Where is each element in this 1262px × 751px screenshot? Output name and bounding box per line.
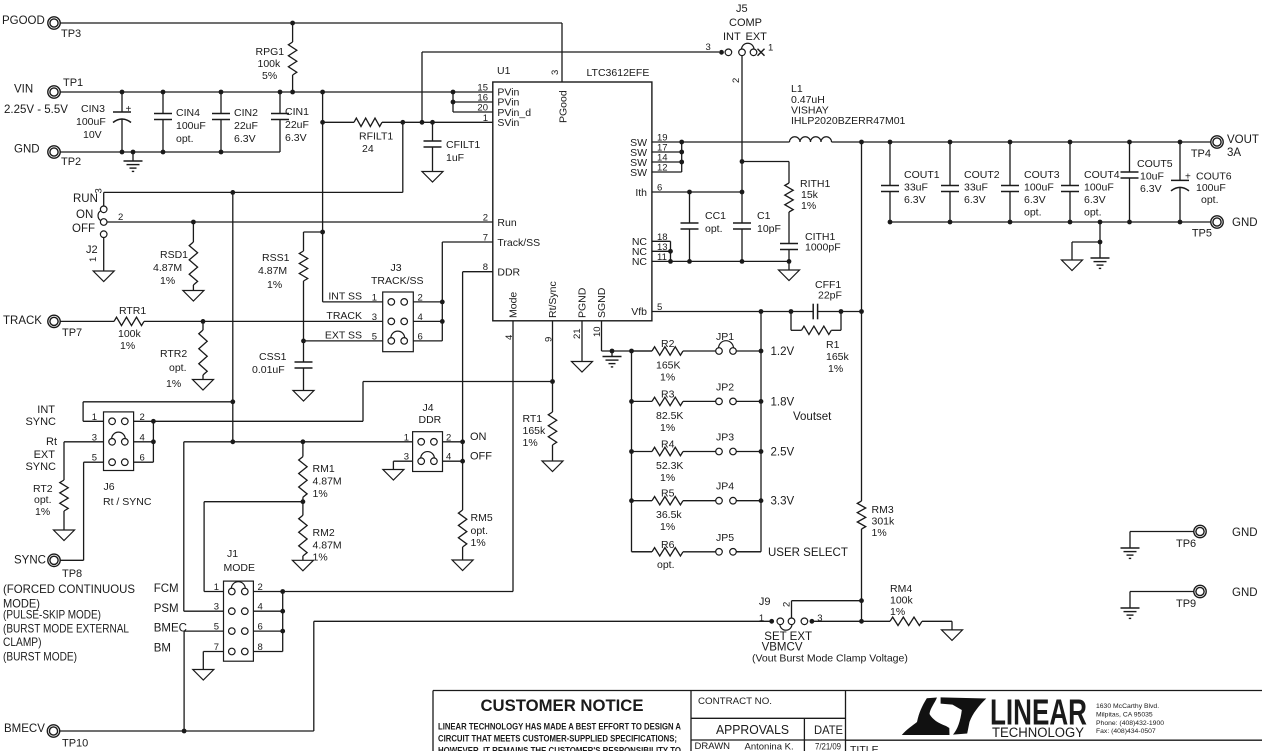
capacitor C1 10pF [733,210,781,261]
wire J1 pins 2/4/6/8 tie [253,592,282,652]
svg-text:TP1: TP1 [63,77,83,89]
wire VOUT to Vfb [861,142,863,501]
svg-text:6.3V: 6.3V [1084,194,1106,206]
svg-text:1%: 1% [313,488,328,500]
svg-text:ON: ON [76,209,93,221]
svg-text:6.3V: 6.3V [964,194,986,206]
svg-text:DATE: DATE [814,723,843,737]
svg-text:1630 McCarthy Blvd.: 1630 McCarthy Blvd. [1096,703,1159,710]
junction rail gnd [1098,240,1103,245]
svg-text:USER SELECT: USER SELECT [768,547,848,559]
svg-text:PGOOD: PGOOD [2,15,45,27]
junction rail dots [888,220,1183,225]
svg-text:Vfb: Vfb [631,306,647,318]
wire EXT SYNC to TP8 [60,462,104,560]
capacitor CIN3 100uF 10V (polarized) [76,92,132,152]
ground (earth) TP6 [1121,548,1140,558]
svg-text:1%: 1% [660,372,675,384]
svg-text:PGood: PGood [558,90,570,123]
svg-text:1.8V: 1.8V [771,396,795,408]
wire BMECV net [60,621,771,731]
svg-text:IHLP2020BZERR47M01: IHLP2020BZERR47M01 [791,115,906,127]
svg-text:Voutset: Voutset [793,411,832,423]
svg-text:J3: J3 [391,262,402,274]
svg-text:1%: 1% [160,275,175,287]
svg-text:COUT5: COUT5 [1137,158,1173,170]
capacitor CITH1 1000pF [780,231,841,261]
Linear Technology logo [902,692,1164,741]
svg-text:100uF: 100uF [1024,182,1054,194]
svg-text:RM1: RM1 [313,463,335,475]
svg-text:J9: J9 [759,596,771,608]
svg-text:7: 7 [483,233,488,244]
ground (earth) output [1091,258,1110,268]
wire PVin pin16/20 branch [451,92,493,112]
junction DDR/J4 [460,439,465,463]
svg-text:OFF: OFF [72,223,95,235]
wire GND rail [60,151,280,153]
svg-text:R5: R5 [661,488,675,500]
svg-text:(Vout Burst Mode Clamp Voltage: (Vout Burst Mode Clamp Voltage) [752,653,908,665]
resistor RM2 4.87M 1% [299,502,342,564]
svg-text:EXT: EXT [746,31,768,43]
wire J5 feed [422,50,724,122]
test point TP1 (VIN) [4,77,83,116]
junction COMP dots [740,159,745,194]
svg-text:opt.: opt. [1024,207,1042,219]
ground (triangle) J2 [93,271,114,282]
wire J4 pin2/pin4 ties [443,442,463,461]
svg-text:JP4: JP4 [716,481,734,493]
junction RSS1 top [320,230,325,235]
header J6 Rt/SYNC [25,404,151,508]
capacitor CIN1 22uF 6.3V [271,92,309,152]
svg-text:6.3V: 6.3V [234,133,256,145]
svg-text:R1: R1 [826,339,840,351]
svg-text:2: 2 [483,213,488,224]
svg-text:RTR2: RTR2 [160,348,187,360]
capacitor COUT4 100uF 6.3V [1061,142,1120,222]
svg-text:PGND: PGND [577,287,589,318]
capacitor CSS1 0.01uF [252,341,313,391]
svg-text:SYNC: SYNC [25,461,56,473]
svg-text:BMECV: BMECV [4,723,45,735]
svg-text:6.3V: 6.3V [285,132,307,144]
svg-text:100uF: 100uF [176,120,206,132]
svg-text:J6: J6 [104,481,115,493]
resistor RTR1 100k 1% [60,305,383,352]
svg-text:DDR: DDR [497,267,520,279]
svg-text:4.87M: 4.87M [313,476,342,488]
svg-text:BMEC: BMEC [154,623,187,635]
svg-text:1uF: 1uF [446,152,464,164]
junction right rail dots [759,349,764,504]
svg-text:10pF: 10pF [757,223,781,235]
wire BMEC net [184,631,223,731]
svg-text:R3: R3 [661,388,675,400]
svg-text:1: 1 [372,293,377,304]
svg-text:SYNC: SYNC [14,555,46,567]
wire Vfb net [652,311,862,313]
junction J6 tie dots [151,419,156,444]
junction INT SYNC riser [230,399,235,404]
wire SVin-divider vertical [322,122,324,302]
svg-text:C1: C1 [757,210,771,222]
svg-text:2.25V - 5.5V: 2.25V - 5.5V [4,104,68,116]
svg-text:10uF: 10uF [1140,171,1164,183]
junction VIN dots [120,90,456,95]
svg-text:TP7: TP7 [62,327,82,339]
svg-text:SW: SW [630,167,647,179]
svg-text:LINEAR TECHNOLOGY HAS MADE A B: LINEAR TECHNOLOGY HAS MADE A BEST EFFORT… [438,722,681,732]
svg-text:3: 3 [94,188,105,193]
svg-text:CLAMP): CLAMP) [3,635,42,649]
svg-text:FCM: FCM [154,583,179,595]
svg-text:(BURST MODE EXTERNAL: (BURST MODE EXTERNAL [3,622,129,636]
ground (triangle) RM2 [292,560,313,571]
svg-text:36.5k: 36.5k [656,509,682,521]
contract / approvals [695,696,879,751]
resistor R5 / jumper JP4 (3.3V) [632,481,795,534]
capacitor CIN4 100uF opt. [154,92,206,152]
svg-text:opt.: opt. [1084,207,1102,219]
svg-text:Fax: (408)434-0507: Fax: (408)434-0507 [1096,728,1156,735]
mode descriptions [3,582,135,663]
op-amp U1 LTC3612EFE [477,65,667,342]
svg-text:SYNC: SYNC [25,416,56,428]
header J5 COMP [706,3,774,83]
svg-text:SGND: SGND [596,287,608,318]
svg-text:1%: 1% [660,422,675,434]
test point TP10 (BMECV) [4,723,88,750]
svg-text:1: 1 [404,432,409,443]
svg-text:NC: NC [632,256,648,268]
svg-text:J5: J5 [736,3,748,15]
svg-text:6.3V: 6.3V [904,194,926,206]
svg-text:PSM: PSM [154,603,179,615]
wire Rt/Sync link [363,382,553,422]
svg-text:1: 1 [483,113,488,124]
junction mode option dots [230,439,305,444]
svg-text:1.2V: 1.2V [771,346,795,358]
test point TP3 (PGOOD) [2,15,81,40]
ground (triangle) CFILT1 [422,172,443,183]
svg-text:CONTRACT NO.: CONTRACT NO. [698,696,772,707]
svg-text:1%: 1% [828,363,843,375]
wire Mode pin net [253,321,513,592]
label Voutset [793,411,832,423]
svg-text:TP2: TP2 [61,156,81,168]
svg-text:3: 3 [706,42,711,53]
svg-text:R4: R4 [661,439,675,451]
wire BM to gnd [203,652,223,670]
wire J4 pin3 to gnd [393,461,412,469]
svg-text:100k: 100k [890,595,914,607]
wire Ith net [652,191,742,193]
svg-text:1%: 1% [313,552,328,564]
svg-text:RM4: RM4 [890,583,912,595]
svg-text:3: 3 [550,70,561,75]
svg-text:CUSTOMER NOTICE: CUSTOMER NOTICE [481,697,644,715]
svg-text:RT1: RT1 [523,413,543,425]
ground (triangle) RM4 [942,630,963,641]
junction BMECV/BMEC [182,729,187,734]
resistor RM4 100k 1% [890,583,952,630]
svg-text:1: 1 [92,412,97,423]
svg-text:J2: J2 [86,244,98,256]
capacitor CC1 opt. [681,192,727,261]
svg-text:TP8: TP8 [62,568,82,580]
svg-text:CIN1: CIN1 [285,106,309,118]
svg-text:1%: 1% [660,472,675,484]
svg-text:JP3: JP3 [716,432,734,444]
wire VIN net [60,91,493,93]
wire J5 pin2 / C1 branch [741,56,743,223]
capacitor CIN2 22uF 6.3V [212,92,258,152]
svg-text:J1: J1 [227,548,238,560]
resistor R2 / jumper JP1 (1.2V) [632,331,795,384]
svg-text:TECHNOLOGY: TECHNOLOGY [992,725,1084,740]
svg-text:APPROVALS: APPROVALS [716,723,789,737]
svg-text:2: 2 [258,582,263,593]
svg-text:301k: 301k [872,516,896,528]
svg-text:INT: INT [37,404,55,416]
svg-text:GND: GND [14,144,40,156]
svg-text:Rt/Sync: Rt/Sync [547,281,559,318]
svg-text:(BURST MODE): (BURST MODE) [3,649,77,663]
junction GND dots [120,150,224,155]
svg-text:ON: ON [470,431,487,443]
svg-text:10V: 10V [83,129,102,141]
svg-text:OFF: OFF [470,451,492,463]
resistor RT2 opt. 1% [33,442,104,530]
resistor RSD1 4.87M 1% [153,222,198,291]
test point TP2 (GND) [14,144,81,169]
svg-text:RSD1: RSD1 [160,249,188,261]
wire PGND pin to gnd [581,321,583,362]
svg-text:RPG1: RPG1 [256,46,285,58]
ground (triangle) RTR2 [193,380,214,391]
svg-text:5: 5 [372,331,377,342]
junction J3 tie dots [440,300,445,324]
svg-text:TRACK/SS: TRACK/SS [371,275,424,287]
wire VOUT net [832,141,1212,143]
svg-text:EXT: EXT [34,449,56,461]
junction TRACK/RTR2 [201,319,206,324]
wire Rt/Sync pin stub [552,321,554,412]
wire J6 pin1 INT SYNC [83,402,233,422]
svg-text:Phone: (408)432-1900: Phone: (408)432-1900 [1096,720,1164,727]
svg-text:7/21/09: 7/21/09 [815,742,841,751]
resistor RPG1 100k 5% [256,23,297,92]
resistor RM1 4.87M 1% [299,442,342,502]
svg-text:Ith: Ith [635,187,647,199]
svg-text:TP6: TP6 [1176,538,1196,550]
svg-text:opt.: opt. [169,362,187,374]
svg-text:1%: 1% [523,437,538,449]
ground (triangle) RM5 [452,560,473,571]
ground (earth) SGND [603,351,622,367]
wire SVin to RUN line [402,122,404,192]
svg-text:COMP: COMP [729,17,762,29]
svg-text:J4: J4 [423,402,434,414]
wire DDR net [463,272,493,510]
wire VOUT gnd rail [890,221,1213,223]
test point TP7 (TRACK) [3,315,82,339]
resistor RFILT1 24 [323,118,493,155]
svg-text:52.3K: 52.3K [656,460,683,472]
svg-text:3: 3 [372,312,377,323]
header J1 MODE [154,548,263,661]
svg-text:GND: GND [1232,527,1258,539]
svg-text:100uF: 100uF [1084,182,1114,194]
junction Vfb dots [759,309,864,314]
svg-text:+: + [1185,172,1191,183]
junction RM1/RM2 node [301,499,306,504]
svg-text:Antonina K.: Antonina K. [745,742,794,751]
svg-text:EXT SS: EXT SS [325,330,362,342]
svg-text:COUT1: COUT1 [904,169,940,181]
capacitor CFF1 22pF [813,279,842,319]
test point TP6 (GND) [1130,525,1258,550]
svg-text:1%: 1% [120,340,135,352]
svg-text:1%: 1% [801,200,816,212]
ground (triangle) J4 pin3 [383,470,404,481]
wire Voutset right rail [736,312,761,552]
wire RUN net [104,191,403,193]
wire mode option net [184,441,413,443]
svg-text:BM: BM [154,643,171,655]
svg-text:82.5K: 82.5K [656,410,683,422]
test point TP9 (GND) [1130,585,1258,610]
svg-text:U1: U1 [497,65,511,77]
svg-text:TITLE: TITLE [850,744,879,751]
svg-text:Milpitas, CA 95035: Milpitas, CA 95035 [1096,712,1153,719]
header J4 DDR [404,402,493,472]
resistor RSS1 4.87M 1% [258,232,323,341]
svg-text:4.87M: 4.87M [313,540,342,552]
svg-text:4: 4 [504,335,515,340]
wire RITH1 branch [742,162,789,184]
wire RUN to mode-line vertical [232,192,234,441]
ground (triangle) RT1 [542,461,563,472]
svg-text:0.01uF: 0.01uF [252,364,285,376]
svg-text:opt.: opt. [705,223,723,235]
wire EXT SS net [304,340,383,342]
svg-text:(PULSE-SKIP MODE): (PULSE-SKIP MODE) [3,608,101,622]
svg-text:RUN: RUN [73,193,98,205]
junction NC dots [668,249,791,264]
svg-text:RTR1: RTR1 [119,305,146,317]
wire PGOOD net [60,23,562,82]
svg-text:CSS1: CSS1 [259,351,287,363]
svg-text:DRAWN: DRAWN [695,741,731,751]
resistor RM3 301k 1% [857,501,895,621]
wire J6 pins 2/4/6 tie [134,421,363,462]
svg-text:RM5: RM5 [471,512,493,524]
svg-text:33uF: 33uF [904,182,928,194]
capacitor COUT5 10uF 6.3V [1121,142,1173,222]
svg-text:4.87M: 4.87M [258,265,287,277]
junction Run/RSD1 [191,220,196,225]
ground (triangle) RT2 [54,530,75,541]
svg-text:1%: 1% [872,527,887,539]
svg-text:1: 1 [214,582,219,593]
svg-text:Track/SS: Track/SS [497,237,540,249]
svg-text:100uF: 100uF [76,116,106,128]
capacitor COUT1 33uF 6.3V [881,142,940,222]
wire J9 pin2 branch [792,601,862,618]
resistor R4 / jumper JP3 (2.5V) [632,432,795,485]
junction RUN [230,190,235,195]
svg-text:Rt / SYNC: Rt / SYNC [103,496,152,508]
svg-text:Rt: Rt [46,436,57,448]
svg-text:COUT4: COUT4 [1084,169,1120,181]
svg-text:COUT2: COUT2 [964,169,1000,181]
junction VOUT dots [859,140,1182,145]
ground (earth) at input [124,152,143,171]
svg-text:opt.: opt. [176,133,194,145]
svg-text:1%: 1% [267,279,282,291]
test point TP5 (GND) [1192,216,1258,240]
svg-text:100uF: 100uF [1196,182,1226,194]
svg-text:Mode: Mode [508,292,520,318]
svg-text:COUT6: COUT6 [1196,171,1232,183]
wire J9 pin3 line [812,620,890,622]
svg-text:1%: 1% [166,378,181,390]
capacitor COUT6 100uF opt. (polarized) [1171,142,1232,222]
svg-text:165K: 165K [656,360,681,372]
junction SVin dots [320,120,435,125]
svg-text:JP2: JP2 [716,381,734,393]
svg-text:1%: 1% [471,537,486,549]
svg-text:opt.: opt. [657,559,675,571]
svg-text:INT: INT [723,31,741,43]
svg-text:TP10: TP10 [62,738,88,750]
inductor L1 0.47uH [790,83,906,142]
svg-text:100k: 100k [258,58,282,70]
capacitor COUT2 33uF 6.3V [941,142,1000,222]
svg-text:R2: R2 [661,338,675,350]
junction PGOOD/RPG1 [290,21,295,26]
test point TP8 (SYNC) [14,554,82,580]
svg-text:33uF: 33uF [964,182,988,194]
header J3 TRACK/SS [325,262,424,352]
resistor RM5 opt. 1% [458,510,492,560]
svg-text:GND: GND [1232,217,1258,229]
svg-text:TRACK: TRACK [3,315,42,327]
svg-text:22uF: 22uF [285,119,309,131]
svg-text:1000pF: 1000pF [805,242,841,254]
svg-text:TP5: TP5 [1192,228,1212,240]
svg-text:GND: GND [1232,587,1258,599]
wire FCM net [204,502,303,592]
svg-text:CIN4: CIN4 [176,107,200,119]
svg-text:opt.: opt. [34,494,52,506]
ground (triangle) CITH1 [779,261,800,280]
test point TP4 (VOUT) [1191,134,1259,160]
resistor R3 / jumper JP2 (1.8V) [632,381,795,434]
svg-text:2.5V: 2.5V [771,447,795,459]
svg-text:RFILT1: RFILT1 [359,131,393,143]
resistor R1 165k 1% [791,312,850,376]
svg-text:CFILT1: CFILT1 [446,139,480,151]
svg-text:LTC3612EFE: LTC3612EFE [587,67,650,79]
svg-text:R6: R6 [661,539,675,551]
ground (triangle) output [1062,260,1083,271]
svg-text:24: 24 [362,143,374,155]
title block borders [433,691,1262,751]
